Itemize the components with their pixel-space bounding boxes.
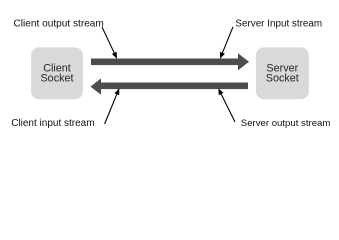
server socket label <box>266 63 299 85</box>
svg-text:Socket: Socket <box>266 73 299 85</box>
server socket box <box>256 47 309 99</box>
leader line 2 <box>220 27 233 59</box>
svg-text:Client input stream: Client input stream <box>11 118 94 129</box>
top arrow: client output -> server input <box>91 53 249 70</box>
leader line 3 <box>105 88 120 124</box>
svg-text:Server Input stream: Server Input stream <box>235 19 322 30</box>
svg-text:Socket: Socket <box>40 73 73 85</box>
leader line 1 <box>102 27 117 59</box>
leader line 4 <box>218 88 235 122</box>
client socket label <box>40 63 73 85</box>
client socket box <box>31 47 83 99</box>
svg-text:Server output stream: Server output stream <box>241 118 331 129</box>
svg-text:Client output stream: Client output stream <box>14 19 104 30</box>
bottom arrow: server output -> client input <box>91 78 249 94</box>
